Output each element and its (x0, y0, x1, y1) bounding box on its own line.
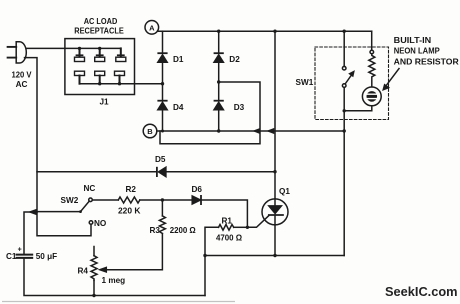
R4 wiper arrow (100, 267, 107, 272)
AC plug P1 body (16, 42, 26, 63)
diode D5 (157, 167, 166, 176)
flow arrow on B wire right (268, 129, 273, 133)
svg-text:NO: NO (94, 219, 107, 228)
Q1 cathode down wire (274, 225, 276, 256)
svg-text:R4: R4 (78, 267, 89, 276)
cathode wire bottom (205, 255, 344, 257)
node B circle (143, 124, 157, 138)
R1 left wire (205, 227, 219, 255)
scan smudge bottom edge (2, 301, 235, 303)
NO loop wire (37, 212, 91, 236)
bridge leg 2 vertical (218, 31, 220, 53)
capacitor C1 plates (17, 254, 33, 256)
svg-text:R2: R2 (126, 185, 137, 194)
SW1 switch column (343, 31, 345, 66)
bottom rail up to cathode wire (204, 256, 206, 296)
svg-text:D2: D2 (229, 55, 240, 64)
Q1 gate wire (247, 215, 269, 227)
R3 bottom wire to R4 wiper (106, 234, 162, 270)
svg-text:+: + (18, 247, 22, 254)
flow arrow on B wire left (254, 129, 259, 133)
resistor R2 zigzag (118, 197, 140, 203)
diode D6 (192, 196, 201, 204)
socket top row 1 (75, 48, 85, 61)
svg-text:4700 Ω: 4700 Ω (216, 234, 242, 243)
R1 right wire to gate node (234, 226, 248, 228)
svg-text:D5: D5 (155, 155, 166, 164)
SW1 lever with arrow (345, 75, 352, 85)
svg-text:NEON LAMP: NEON LAMP (394, 46, 441, 55)
bridge leg 1 vertical (162, 31, 164, 53)
svg-text:2200 Ω: 2200 Ω (170, 226, 196, 235)
socket bottom row 3 (115, 71, 125, 84)
svg-text:SW2: SW2 (61, 196, 79, 205)
svg-text:AND RESISTOR: AND RESISTOR (394, 58, 459, 67)
svg-text:SeekIC.com: SeekIC.com (385, 284, 458, 299)
svg-text:120 V: 120 V (12, 71, 32, 80)
SW1 dashed enclosure (315, 47, 389, 120)
socket top row 3 (116, 48, 126, 61)
receptacle box J1 (65, 39, 135, 95)
lamp bottom wire to switch column (344, 106, 372, 111)
node A circle (145, 21, 159, 35)
built-in resistor zigzag (369, 54, 375, 87)
pointer arrow from label to lamp (386, 69, 400, 87)
svg-text:A: A (149, 23, 155, 32)
svg-text:NC: NC (84, 184, 96, 193)
wire junction to C1 rail (24, 212, 37, 254)
svg-text:R3: R3 (150, 226, 161, 235)
vertical 2 from top rail down to Q1 (274, 31, 276, 199)
wire R2 to D6 (140, 199, 192, 201)
left rail below C1 (24, 259, 205, 296)
SW1 top terminal (342, 66, 346, 70)
NC wire to R2 (92, 199, 118, 201)
svg-text:AC LOAD: AC LOAD (84, 17, 118, 26)
diode D3 (214, 101, 223, 110)
svg-text:D1: D1 (173, 55, 184, 64)
junction arrow at left rail (30, 210, 36, 214)
SW2 NO terminal (89, 221, 93, 225)
SW1 column below switch (343, 87, 345, 255)
potentiometer R4 (93, 247, 95, 256)
SW2 pivot dot (79, 210, 82, 213)
svg-text:D6: D6 (192, 185, 203, 194)
plug prong lower (8, 57, 17, 59)
diode D4 (158, 101, 167, 110)
leg2 midpoint wire to vertical then jog back to B (160, 82, 260, 144)
socket top row 2 (95, 48, 105, 61)
plug prong upper (8, 46, 17, 48)
SW2 NC terminal (89, 198, 93, 202)
resistor R1 (219, 225, 234, 231)
svg-text:Q1: Q1 (279, 187, 290, 196)
svg-text:B: B (147, 127, 153, 136)
svg-text:50 μF: 50 μF (36, 252, 57, 261)
lamp branch terminal circle (370, 50, 374, 54)
wire D6 to gate node (201, 200, 247, 227)
lamp branch: top rail corner down (371, 31, 373, 50)
svg-text:R1: R1 (222, 216, 233, 225)
svg-text:D4: D4 (173, 103, 184, 112)
wire plug lower to left rail (25, 58, 38, 212)
B bottom wire (157, 130, 345, 132)
resistor R3 (161, 200, 163, 216)
svg-text:SW1: SW1 (296, 78, 314, 87)
svg-text:1 meg: 1 meg (102, 276, 126, 285)
wire junction to SW2 pivot (37, 211, 81, 213)
receptacle internal bottom wire (80, 77, 163, 84)
diode D1 (158, 53, 167, 62)
neon lamp NE1 (362, 87, 381, 106)
top rail from A (157, 30, 371, 32)
svg-text:C1: C1 (6, 252, 17, 261)
svg-text:BUILT-IN: BUILT-IN (394, 36, 432, 45)
svg-text:D3: D3 (234, 103, 245, 112)
svg-text:RECEPTACLE: RECEPTACLE (74, 27, 124, 36)
SW1 bottom terminal (342, 84, 346, 88)
socket bottom row 1 (75, 71, 85, 84)
SW2 lever (81, 201, 90, 211)
socket bottom row 2 (95, 71, 105, 84)
svg-text:J1: J1 (100, 98, 110, 107)
svg-text:220 K: 220 K (118, 206, 141, 215)
D5 wire (37, 171, 157, 173)
SCR Q1 (262, 199, 288, 225)
wire plug to receptacle top (27, 48, 121, 54)
svg-text:AC: AC (16, 80, 28, 89)
diode D2 (214, 53, 223, 62)
